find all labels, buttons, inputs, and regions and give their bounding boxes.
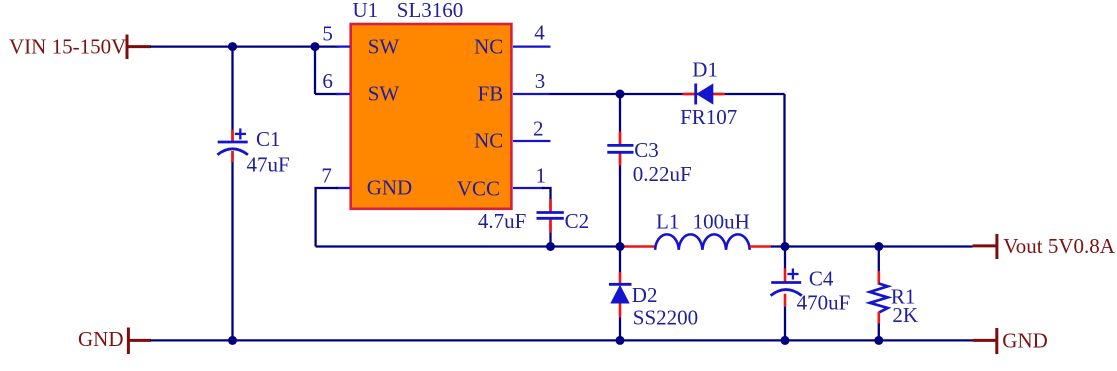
port VIN 15-150V [9, 35, 151, 60]
svg-text:5: 5 [322, 22, 333, 46]
capacitor C4 [771, 247, 851, 341]
node junction C4 bottom [781, 336, 790, 345]
svg-text:L1: L1 [656, 210, 679, 234]
svg-text:D1: D1 [692, 57, 718, 81]
pin 2 NC [474, 117, 550, 153]
svg-text:470uF: 470uF [797, 290, 851, 314]
wire C1 vertical bottom [231, 152, 233, 341]
op-amp U1 body SL3160 [351, 0, 512, 209]
svg-text:3: 3 [535, 69, 546, 93]
inductor L1 100uH [625, 210, 772, 250]
pin 4 NC [474, 21, 550, 59]
wire VIN to IC pin5 row [150, 45, 339, 47]
svg-text:47uF: 47uF [247, 153, 290, 177]
wire pin1 corner to C2 [542, 188, 551, 212]
port GND right [973, 328, 1048, 354]
pin 5 SW [322, 22, 399, 59]
diode D2 SS2200 [609, 247, 698, 341]
svg-text:FR107: FR107 [680, 105, 737, 129]
svg-text:VCC: VCC [457, 176, 500, 200]
svg-text:SW: SW [368, 34, 400, 58]
pin 1 VCC [457, 163, 546, 200]
svg-text:D2: D2 [632, 283, 658, 307]
svg-text:FB: FB [478, 81, 504, 105]
wire pin3 row to D1 and corner [550, 93, 785, 95]
wire pin6 horizontal [315, 93, 339, 95]
svg-text:0.22uF: 0.22uF [633, 162, 692, 186]
pin 3 FB [478, 69, 550, 105]
svg-text:GND: GND [367, 175, 413, 199]
svg-text:SS2200: SS2200 [633, 306, 698, 330]
svg-text:VIN 15-150V: VIN 15-150V [9, 35, 126, 59]
svg-text:2: 2 [533, 117, 544, 141]
node junction D2 bottom [616, 336, 625, 345]
svg-text:2K: 2K [892, 303, 918, 327]
node junction at C1 top [228, 42, 237, 51]
wire pin7 to mid rail [316, 188, 338, 247]
svg-text:1: 1 [536, 163, 547, 187]
port Vout 5V0.8A [973, 234, 1116, 259]
svg-text:C1: C1 [256, 127, 281, 151]
svg-text:C2: C2 [565, 209, 590, 233]
diode D1 FR107 [680, 57, 737, 129]
wire C3 bottom [619, 153, 621, 247]
node junction mid rail at 620 [616, 242, 625, 251]
port GND left [78, 327, 151, 354]
svg-text:NC: NC [474, 34, 503, 58]
svg-text:6: 6 [322, 69, 333, 93]
svg-text:NC: NC [474, 128, 503, 152]
svg-text:4.7uF: 4.7uF [478, 209, 526, 233]
wire D1 right corner down [783, 94, 785, 247]
capacitor C1 [217, 127, 289, 177]
node junction C1 bottom [228, 336, 237, 345]
wire bottom ground rail [150, 339, 973, 341]
svg-text:7: 7 [321, 164, 332, 188]
pin 6 SW [322, 69, 399, 105]
node junction R1 bottom [874, 336, 883, 345]
svg-text:U1: U1 [353, 0, 379, 22]
svg-text:100uH: 100uH [693, 210, 750, 234]
pin 7 GND [321, 164, 412, 200]
node junction output at R1 [874, 242, 883, 251]
node junction at pin5/6 branch [311, 42, 320, 51]
svg-text:C4: C4 [809, 266, 834, 290]
capacitor C3 [607, 132, 691, 187]
wire C3 top [619, 94, 621, 144]
resistor R1 2K [870, 247, 918, 341]
svg-text:GND: GND [1002, 329, 1048, 353]
svg-text:4: 4 [534, 21, 545, 45]
wire L1 to output node [771, 245, 973, 247]
wire vertical to pin6 [314, 47, 316, 94]
svg-text:GND: GND [78, 327, 124, 351]
wire C1 vertical top [231, 47, 233, 142]
svg-text:Vout 5V0.8A: Vout 5V0.8A [1003, 234, 1115, 258]
svg-text:SW: SW [368, 81, 400, 105]
capacitor C2 [478, 199, 589, 233]
node junction C2 bottom [546, 242, 555, 251]
node junction output at C4 [781, 242, 790, 251]
node junction FB/C3 [616, 90, 625, 99]
svg-text:SL3160: SL3160 [397, 0, 464, 22]
wire C2 bottom [549, 218, 551, 247]
svg-text:C3: C3 [634, 138, 659, 162]
wire mid rail left [316, 245, 625, 247]
